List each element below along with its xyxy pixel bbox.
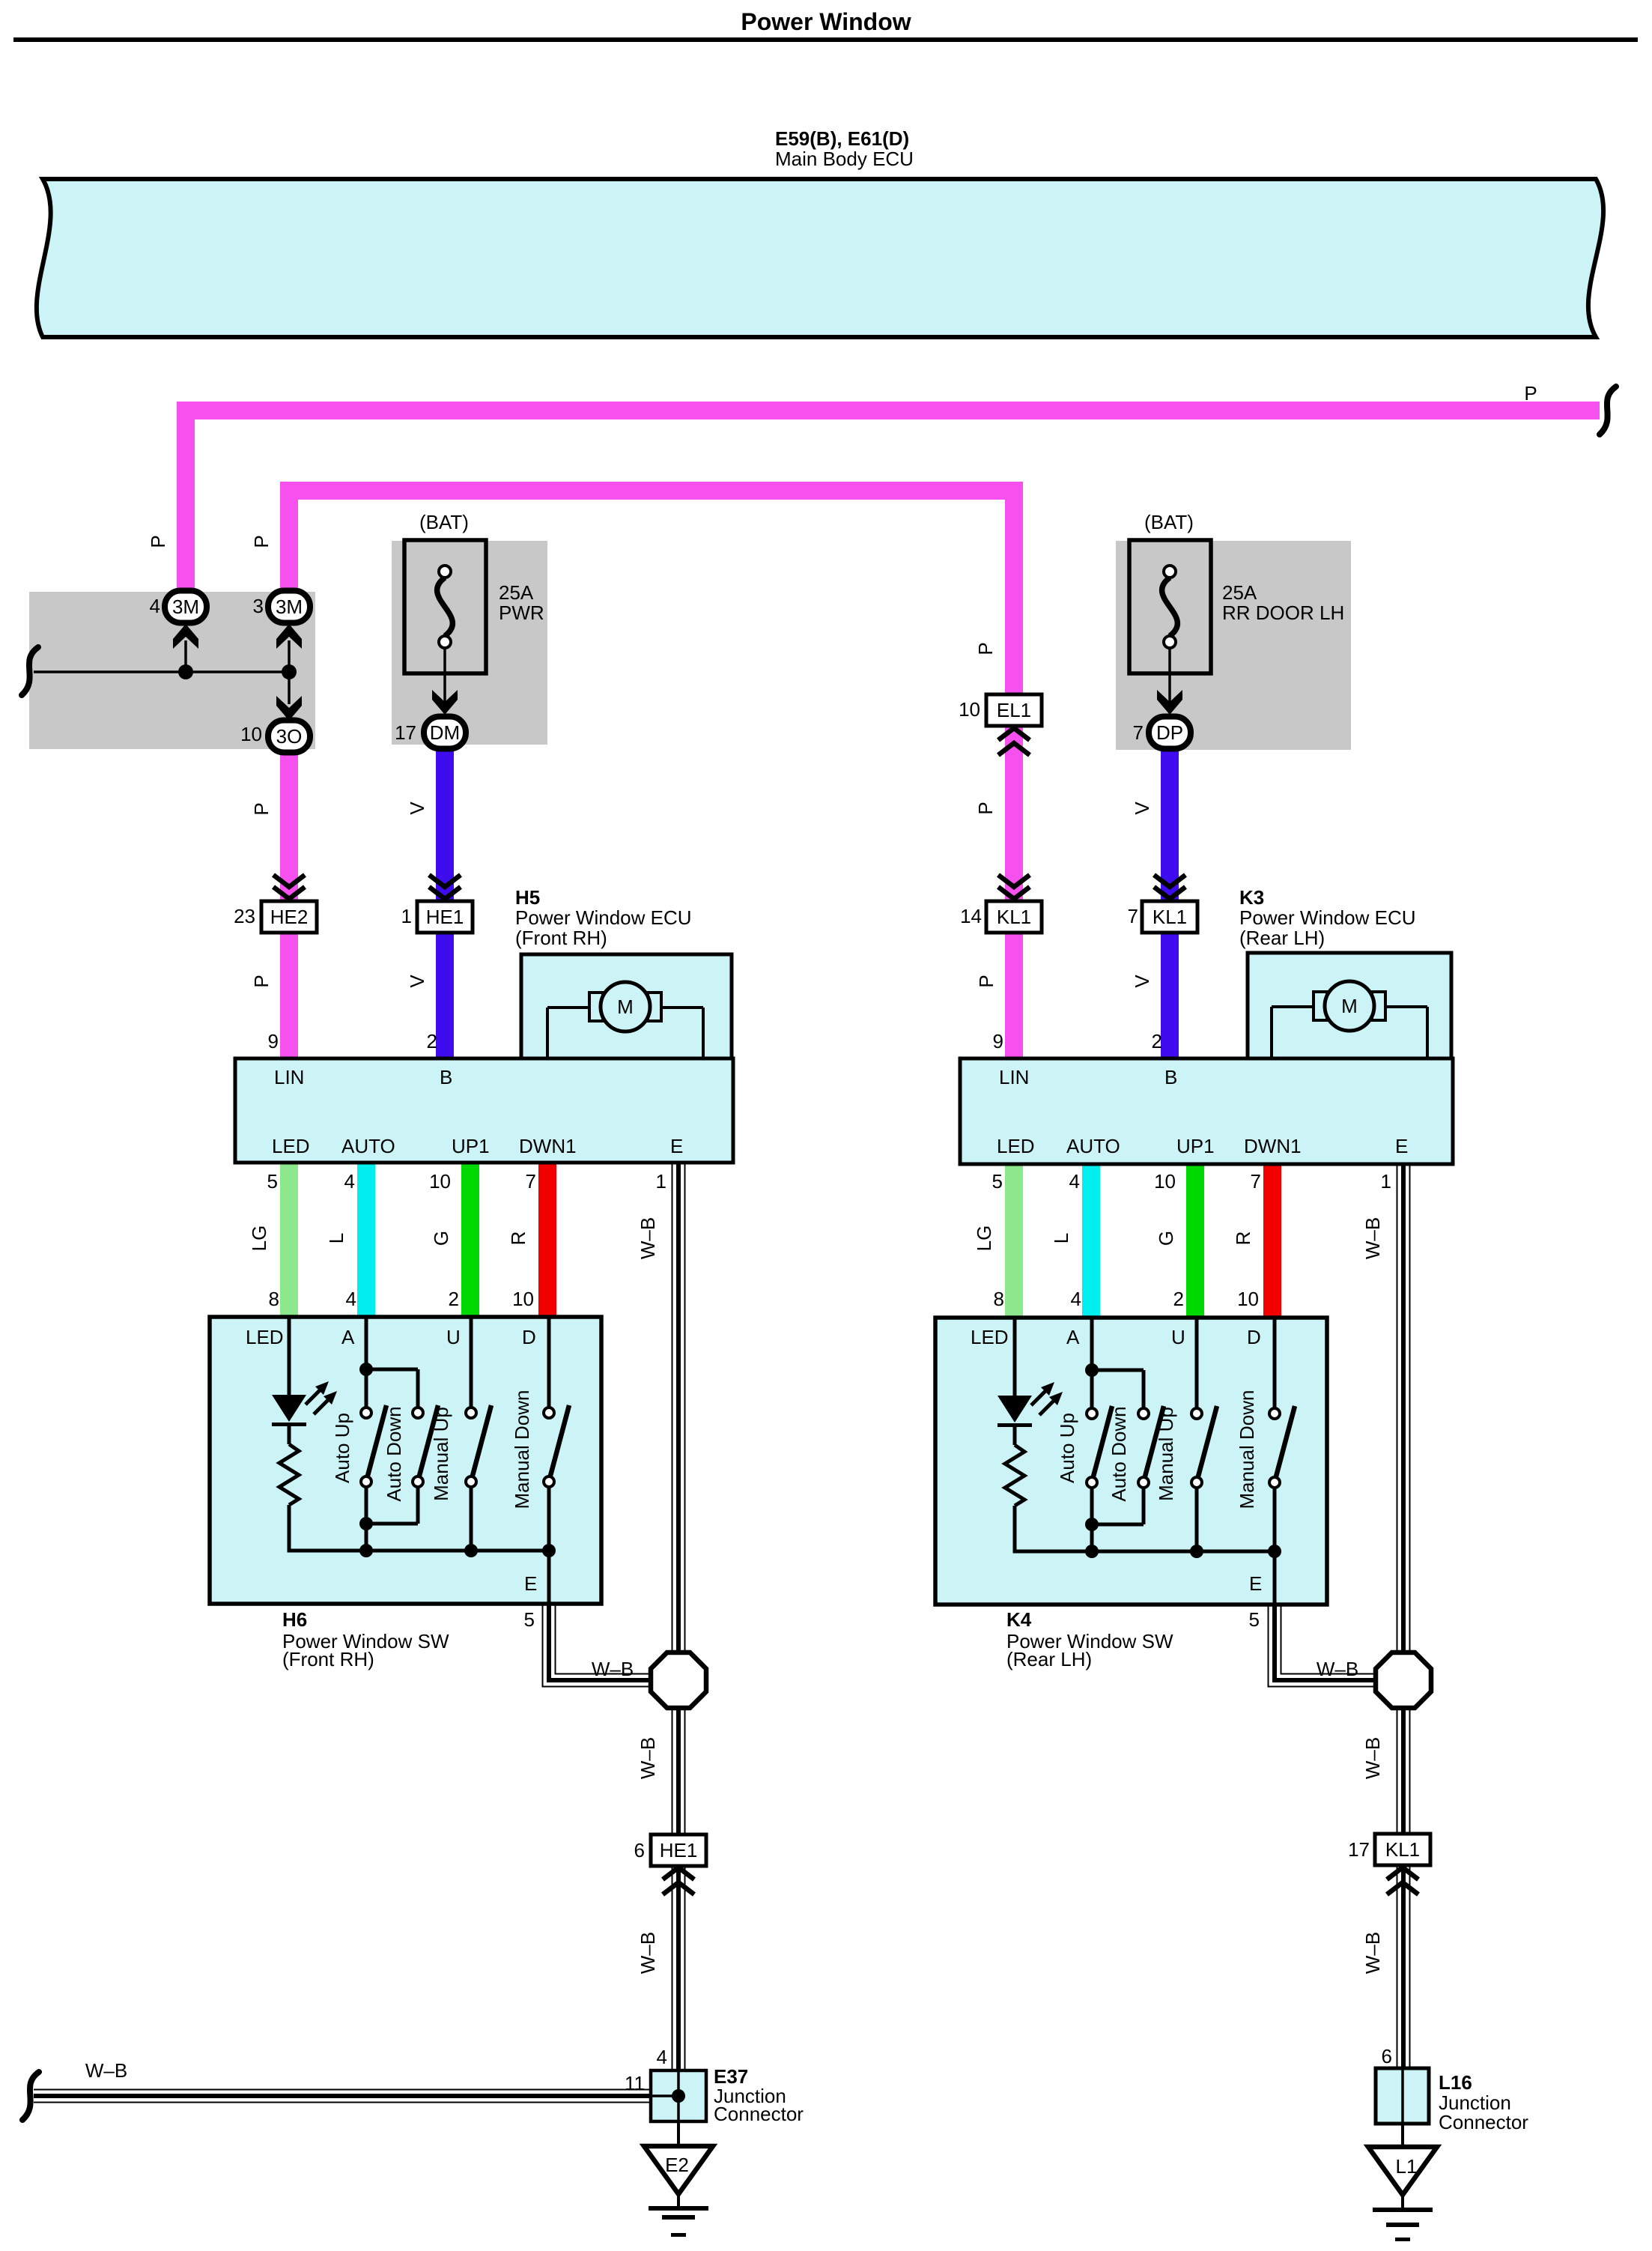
svg-text:10: 10 (512, 1288, 534, 1310)
svg-text:LG: LG (248, 1226, 270, 1252)
svg-text:(Front RH): (Front RH) (515, 927, 607, 949)
svg-text:A: A (1066, 1326, 1080, 1348)
svg-text:(Rear LH): (Rear LH) (1239, 927, 1325, 949)
svg-text:Manual Down: Manual Down (1236, 1390, 1258, 1509)
svg-text:2: 2 (1152, 1030, 1162, 1052)
svg-text:LED: LED (971, 1326, 1009, 1348)
svg-text:11: 11 (625, 2072, 645, 2094)
svg-text:LIN: LIN (274, 1066, 304, 1088)
svg-text:1: 1 (401, 905, 412, 927)
svg-text:P: P (975, 975, 997, 987)
svg-text:D: D (522, 1326, 536, 1348)
svg-text:W–B: W–B (592, 1658, 634, 1680)
svg-text:M: M (1341, 995, 1358, 1017)
svg-text:3: 3 (253, 595, 264, 617)
svg-text:UP1: UP1 (452, 1135, 490, 1157)
svg-text:Auto Down: Auto Down (383, 1406, 405, 1501)
svg-text:1: 1 (1381, 1170, 1391, 1193)
svg-text:A: A (341, 1326, 355, 1348)
svg-text:23: 23 (234, 905, 255, 927)
svg-text:5: 5 (524, 1608, 535, 1631)
svg-text:Manual Up: Manual Up (430, 1407, 452, 1501)
svg-text:Auto Up: Auto Up (1056, 1413, 1078, 1483)
svg-text:7: 7 (1128, 905, 1138, 927)
svg-text:W–B: W–B (637, 1932, 659, 1974)
svg-text:8: 8 (994, 1288, 1004, 1310)
svg-text:RR DOOR LH: RR DOOR LH (1222, 602, 1344, 624)
svg-text:(BAT): (BAT) (419, 511, 469, 533)
svg-text:5: 5 (1249, 1608, 1260, 1631)
svg-text:H5: H5 (515, 886, 540, 909)
svg-text:HE1: HE1 (660, 1839, 698, 1861)
svg-text:KL1: KL1 (1385, 1838, 1420, 1861)
svg-text:W–B: W–B (1317, 1658, 1358, 1680)
svg-text:25A: 25A (499, 581, 534, 604)
svg-text:LED: LED (997, 1135, 1035, 1157)
svg-text:3M: 3M (172, 596, 199, 618)
svg-text:Power Window ECU: Power Window ECU (1239, 906, 1416, 929)
svg-text:10: 10 (1154, 1170, 1176, 1193)
svg-text:W–B: W–B (1361, 1932, 1384, 1974)
svg-text:17: 17 (1348, 1838, 1370, 1861)
svg-text:DWN1: DWN1 (519, 1135, 577, 1157)
svg-text:Power Window: Power Window (741, 8, 911, 35)
svg-text:V: V (1131, 975, 1153, 988)
svg-text:Manual Down: Manual Down (511, 1390, 533, 1509)
svg-text:14: 14 (960, 905, 982, 927)
svg-text:2: 2 (427, 1030, 437, 1052)
svg-text:K3: K3 (1239, 886, 1264, 909)
svg-text:H6: H6 (282, 1608, 307, 1631)
svg-text:P: P (250, 802, 273, 815)
svg-text:W–B: W–B (1361, 1217, 1384, 1259)
svg-text:6: 6 (634, 1839, 645, 1861)
svg-text:LIN: LIN (999, 1066, 1029, 1088)
svg-text:10: 10 (1237, 1288, 1259, 1310)
svg-text:L16: L16 (1439, 2071, 1472, 2094)
svg-text:Connector: Connector (1439, 2111, 1528, 2133)
svg-text:4: 4 (150, 595, 160, 617)
svg-text:(BAT): (BAT) (1144, 511, 1194, 533)
svg-text:8: 8 (269, 1288, 279, 1310)
svg-text:EL1: EL1 (997, 699, 1031, 721)
svg-text:Main Body ECU: Main Body ECU (775, 148, 914, 170)
svg-text:3M: 3M (276, 596, 303, 618)
svg-text:AUTO: AUTO (341, 1135, 395, 1157)
svg-text:10: 10 (429, 1170, 451, 1193)
svg-text:4: 4 (1069, 1170, 1080, 1193)
svg-text:P: P (1524, 382, 1537, 405)
svg-text:Power Window ECU: Power Window ECU (515, 906, 692, 929)
svg-text:U: U (1171, 1326, 1185, 1348)
svg-text:AUTO: AUTO (1066, 1135, 1120, 1157)
svg-text:4: 4 (346, 1288, 356, 1310)
svg-text:DP: DP (1156, 721, 1183, 744)
svg-text:G: G (1155, 1231, 1177, 1246)
svg-text:B: B (1164, 1066, 1177, 1088)
svg-text:U: U (446, 1326, 461, 1348)
svg-text:E: E (524, 1572, 537, 1595)
svg-text:10: 10 (959, 698, 980, 721)
svg-text:R: R (1232, 1231, 1254, 1246)
svg-text:E59(B), E61(D): E59(B), E61(D) (775, 127, 909, 150)
svg-text:4: 4 (657, 2046, 667, 2068)
svg-text:Auto Up: Auto Up (331, 1413, 353, 1483)
svg-text:E: E (1249, 1572, 1262, 1595)
svg-text:9: 9 (268, 1030, 279, 1052)
svg-text:4: 4 (344, 1170, 355, 1193)
svg-text:W–B: W–B (85, 2059, 127, 2082)
svg-text:2: 2 (449, 1288, 459, 1310)
svg-text:25A: 25A (1222, 581, 1257, 604)
svg-text:E: E (1395, 1135, 1408, 1157)
svg-text:KL1: KL1 (997, 906, 1031, 928)
svg-text:(Front RH): (Front RH) (282, 1648, 374, 1670)
svg-text:1: 1 (656, 1170, 666, 1193)
svg-text:HE2: HE2 (270, 906, 309, 928)
svg-text:W–B: W–B (637, 1737, 659, 1779)
svg-text:7: 7 (1133, 721, 1144, 744)
svg-text:HE1: HE1 (426, 906, 464, 928)
svg-text:5: 5 (992, 1170, 1003, 1193)
svg-text:6: 6 (1382, 2045, 1392, 2067)
svg-text:V: V (1131, 802, 1153, 815)
svg-text:2: 2 (1173, 1288, 1184, 1310)
svg-text:E: E (670, 1135, 683, 1157)
svg-text:E2: E2 (665, 2154, 689, 2176)
svg-text:W–B: W–B (1361, 1737, 1384, 1779)
svg-text:B: B (440, 1066, 452, 1088)
svg-text:P: P (974, 802, 997, 814)
svg-text:P: P (250, 535, 273, 548)
svg-text:17: 17 (395, 721, 416, 744)
svg-text:10: 10 (240, 723, 262, 745)
svg-text:DWN1: DWN1 (1244, 1135, 1302, 1157)
svg-text:Manual Up: Manual Up (1155, 1407, 1177, 1501)
svg-text:Auto Down: Auto Down (1108, 1406, 1130, 1501)
svg-text:V: V (406, 802, 428, 815)
svg-text:Connector: Connector (714, 2103, 804, 2125)
svg-text:LED: LED (272, 1135, 310, 1157)
svg-text:3O: 3O (276, 725, 303, 748)
svg-text:9: 9 (993, 1030, 1003, 1052)
svg-text:DM: DM (430, 721, 460, 744)
svg-text:K4: K4 (1006, 1608, 1032, 1631)
svg-text:(Rear LH): (Rear LH) (1006, 1648, 1092, 1670)
svg-text:P: P (147, 535, 169, 548)
svg-text:D: D (1247, 1326, 1261, 1348)
svg-text:M: M (617, 996, 634, 1018)
svg-text:PWR: PWR (499, 602, 544, 624)
svg-text:5: 5 (267, 1170, 278, 1193)
svg-text:LED: LED (246, 1326, 284, 1348)
svg-text:KL1: KL1 (1153, 906, 1187, 928)
svg-text:7: 7 (1251, 1170, 1261, 1193)
svg-text:L: L (325, 1233, 347, 1243)
svg-text:UP1: UP1 (1176, 1135, 1215, 1157)
svg-text:V: V (406, 975, 428, 988)
svg-text:LG: LG (973, 1226, 995, 1252)
svg-text:P: P (974, 642, 997, 655)
svg-text:4: 4 (1071, 1288, 1081, 1310)
svg-text:L1: L1 (1396, 2155, 1418, 2178)
svg-text:R: R (507, 1231, 529, 1246)
svg-text:L: L (1050, 1233, 1072, 1243)
svg-text:7: 7 (526, 1170, 536, 1193)
svg-text:P: P (250, 975, 273, 987)
svg-text:W–B: W–B (637, 1217, 659, 1259)
svg-text:G: G (430, 1231, 452, 1246)
